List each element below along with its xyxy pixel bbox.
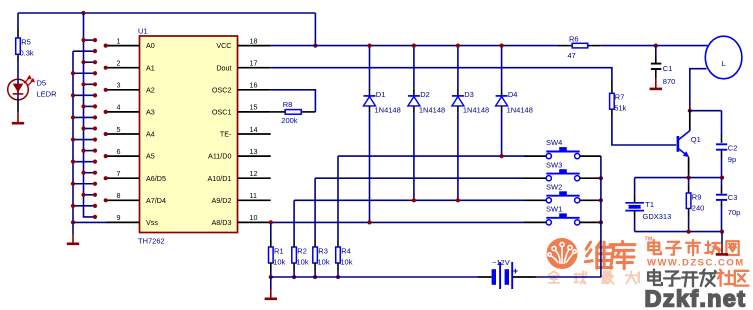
wire R4 bottom lead [337, 263, 339, 271]
svg-text:18: 18 [250, 36, 258, 45]
svg-text:LEDR: LEDR [37, 90, 58, 99]
wire C1 to ground [655, 69, 657, 78]
resistor R8 left lead to OSC1 [271, 111, 286, 113]
battery -12V left lead [478, 276, 492, 278]
switch SW3 [546, 169, 580, 181]
ground under LED [17, 113, 19, 124]
LED D5 LEDR [8, 75, 35, 100]
wire R5 to LED [17, 54, 19, 61]
switch SW2 [546, 191, 580, 203]
node VCC drop junction [313, 44, 317, 48]
resistor R9 240 [688, 178, 690, 186]
diode D4 1N4148 [496, 46, 508, 157]
svg-text:47: 47 [568, 51, 576, 60]
wire jumper row 14 [73, 183, 95, 185]
wire R2 bottom lead [293, 263, 295, 271]
svg-text:U1: U1 [138, 27, 148, 36]
battery -12V [492, 262, 513, 289]
resistor R7 51k top lead [611, 81, 613, 94]
wire SW1 row [271, 221, 524, 223]
pin 1 A0 [107, 45, 140, 47]
pin 12 A10/D1 [238, 177, 271, 179]
wire jumper row 17 [93, 215, 97, 219]
pin 16 OSC2 [238, 89, 271, 91]
node SW2 row D2 junction [412, 198, 416, 202]
resistor R3 10k [313, 247, 318, 263]
capacitor C1 870 [655, 46, 657, 56]
wire jumper row 8 [73, 116, 95, 118]
capacitor C2 9p [721, 111, 723, 135]
svg-text:TH7262: TH7262 [138, 237, 165, 246]
resistor R8 200k [285, 110, 301, 115]
svg-text:13: 13 [250, 147, 258, 156]
pin 18 VCC [238, 45, 271, 47]
svg-text:1: 1 [117, 36, 121, 45]
wire C3 bottom lead [721, 201, 723, 208]
svg-text:SW1: SW1 [546, 205, 562, 214]
wire R2 column [293, 200, 295, 240]
wire jumper row 7 [84, 105, 96, 107]
node R3 rail junction [313, 275, 317, 279]
svg-text:200k: 200k [281, 116, 298, 125]
wire SW4 row [338, 155, 524, 157]
wire Vss to bus B [73, 221, 107, 223]
wire jumper row 4 [73, 72, 95, 74]
wire collector node to C2 [690, 110, 722, 112]
svg-text:R3: R3 [318, 247, 328, 256]
wire jumper row 15 [84, 194, 96, 196]
wire jumper row 1 [84, 39, 96, 41]
svg-text:10k: 10k [297, 258, 309, 267]
svg-text:240: 240 [692, 204, 705, 213]
wire jumper row 9 [84, 128, 96, 130]
wire LED to ground [17, 100, 19, 113]
switch SW1 [546, 213, 580, 225]
svg-text:D1: D1 [376, 90, 386, 99]
svg-text:A5: A5 [146, 152, 155, 161]
wire address bus A vertical [84, 13, 96, 217]
node R1 rail junction [269, 275, 273, 279]
ground under C1 [655, 78, 657, 89]
resistor R2 10k [292, 247, 297, 263]
crystal T1 GDX313 [625, 203, 644, 211]
wire top rail drop to VCC [314, 13, 316, 46]
svg-text:R2: R2 [297, 247, 307, 256]
wire R4 column [337, 156, 339, 240]
resistor R8 200k right lead [301, 111, 315, 113]
pin 6 A5 [107, 155, 140, 157]
svg-text:D3: D3 [464, 90, 474, 99]
resistor R1 10k [269, 247, 274, 263]
ground under rail [270, 289, 272, 299]
node C1 VCC junction [654, 44, 658, 48]
watermark logo circle [547, 238, 578, 269]
wire address bus B vertical [72, 51, 74, 234]
pin 9 Vss [107, 221, 140, 223]
svg-text:OSC2: OSC2 [212, 85, 232, 94]
svg-text:SW3: SW3 [546, 160, 562, 169]
svg-text:A3: A3 [146, 108, 155, 117]
node SW2 row D3 junction [456, 198, 460, 202]
node SW1 pin10 junction [269, 220, 273, 224]
svg-text:16: 16 [250, 81, 258, 90]
svg-text:SW2: SW2 [546, 182, 562, 191]
wire SW1 to common [580, 221, 601, 223]
node bus B / Vss junction [71, 220, 75, 224]
transistor Q1 [678, 111, 690, 178]
pin 15 OSC1 [238, 111, 271, 113]
wire T1 bottom lead [634, 211, 636, 217]
capacitor C3 70p [721, 178, 723, 186]
node SW1 row D1 junction [367, 220, 371, 224]
wire R1 column [270, 222, 272, 240]
svg-text:8: 8 [117, 191, 121, 200]
svg-text:9: 9 [117, 213, 121, 222]
svg-text:1N4148: 1N4148 [375, 105, 401, 114]
switch SW4 [546, 147, 580, 159]
resistor R4 10k [336, 247, 341, 263]
svg-text:D2: D2 [420, 90, 430, 99]
wire OSC2 loop [271, 90, 316, 112]
watermark dianzi shichang wang characters [648, 240, 661, 254]
wire SW2 to common [580, 199, 601, 201]
svg-text:10: 10 [250, 213, 258, 222]
svg-text:70p: 70p [728, 208, 741, 217]
svg-text:R7: R7 [615, 92, 625, 101]
svg-text:D5: D5 [37, 79, 47, 88]
svg-text:R5: R5 [21, 38, 31, 47]
wire rail to ground [270, 277, 272, 289]
svg-text:870: 870 [663, 77, 676, 86]
svg-text:~12V: ~12V [492, 258, 510, 267]
svg-text:7: 7 [117, 169, 121, 178]
resistor R6 47 [572, 43, 588, 48]
wire to right ground [721, 232, 723, 244]
svg-text:1N4148: 1N4148 [463, 105, 489, 114]
svg-text:A11/D0: A11/D0 [208, 152, 231, 161]
node D1 VCC junction [367, 44, 371, 48]
wire jumper row 13 [84, 172, 96, 174]
svg-text:11: 11 [250, 191, 257, 200]
resistor R7 51k [610, 93, 615, 109]
svg-text:C3: C3 [728, 193, 738, 202]
node right ground junction [720, 230, 724, 234]
wire jumper row 10 [73, 139, 95, 141]
wire R7 to Q1 base [611, 109, 613, 117]
node R9 bottom junction [687, 230, 691, 234]
svg-text:15: 15 [250, 103, 258, 112]
svg-text:17: 17 [250, 59, 258, 68]
svg-text:WWW.DZSC.COM: WWW.DZSC.COM [647, 258, 745, 269]
ground under bus B [72, 234, 74, 244]
pin 17 Dout [238, 67, 271, 69]
wire VCC row to speaker [600, 45, 707, 47]
svg-text:A8/D3: A8/D3 [212, 218, 232, 227]
watermark quan qiu zui da IC row [548, 271, 559, 283]
svg-text:0.3k: 0.3k [20, 48, 34, 57]
node SW4 row D4 junction [500, 154, 504, 158]
pin 2 A1 [107, 67, 140, 69]
resistor R5 0.3k [16, 38, 21, 54]
svg-text:OSC1: OSC1 [212, 108, 232, 117]
node emitter R9 junction [687, 176, 691, 180]
wire jumper row 11 [84, 150, 96, 152]
svg-text:R4: R4 [341, 247, 351, 256]
wire jumper row 12 [73, 161, 95, 163]
svg-text:R1: R1 [274, 247, 284, 256]
svg-text:GDX313: GDX313 [643, 212, 672, 221]
svg-text:Dzkf.net: Dzkf.net [645, 286, 747, 310]
svg-text:Q1: Q1 [691, 135, 701, 144]
svg-text:3: 3 [117, 81, 121, 90]
node R2 rail junction [292, 275, 296, 279]
wire R3 bottom lead [314, 263, 316, 271]
svg-text:1N4148: 1N4148 [419, 105, 445, 114]
wire Dout row [271, 68, 612, 81]
svg-text:A9/D2: A9/D2 [212, 196, 232, 205]
svg-text:+: + [513, 266, 518, 276]
node R4 rail junction [336, 275, 340, 279]
wire C2 to node [721, 151, 723, 159]
svg-text:9p: 9p [728, 155, 736, 164]
speaker L [705, 36, 742, 79]
ground right block [721, 244, 723, 255]
wire jumper row 16 [73, 205, 95, 207]
svg-text:A2: A2 [146, 85, 155, 94]
watermark shequ orange characters [717, 270, 733, 286]
svg-text:D4: D4 [508, 90, 518, 99]
svg-text:Dout: Dout [216, 63, 231, 72]
pin 7 A6/D5 [107, 177, 140, 179]
wire jumper row 3 [84, 61, 96, 63]
svg-text:2: 2 [117, 59, 121, 68]
pin 10 A8/D3 [238, 221, 271, 223]
svg-text:1N4148: 1N4148 [507, 105, 533, 114]
svg-text:C2: C2 [728, 144, 738, 153]
node D4 VCC junction [500, 44, 504, 48]
node SW3 common junction [599, 176, 603, 180]
wire bottom rail left [271, 276, 478, 278]
wire R5 top lead [17, 13, 19, 27]
diode D1 1N4148 [364, 46, 376, 223]
pin 3 A2 [107, 89, 140, 91]
svg-text:Vss: Vss [146, 218, 158, 227]
svg-text:TE-: TE- [220, 130, 232, 139]
svg-text:A4: A4 [146, 130, 155, 139]
svg-text:A7/D4: A7/D4 [146, 196, 166, 205]
wire jumper row 2 [73, 50, 95, 52]
wire right bottom row [635, 231, 722, 233]
pin 14 TE- [238, 133, 271, 135]
node SW1 common junction [599, 220, 603, 224]
svg-text:51k: 51k [614, 104, 626, 113]
node Q1 collector junction [688, 109, 692, 113]
battery right lead [513, 276, 536, 278]
wire emitter node row [635, 177, 722, 179]
svg-text:4: 4 [117, 103, 121, 112]
watermark WEIKU big characters [585, 242, 612, 269]
diode D2 1N4148 [408, 46, 420, 201]
svg-text:10k: 10k [318, 258, 330, 267]
svg-text:10k: 10k [340, 258, 352, 267]
svg-text:VCC: VCC [216, 41, 231, 50]
svg-text:6: 6 [117, 147, 121, 156]
svg-text:L: L [722, 59, 726, 68]
op-amp U1 TH7262 IC body [140, 36, 238, 233]
svg-text:T1: T1 [645, 200, 654, 209]
svg-text:R6: R6 [569, 35, 579, 44]
svg-text:12: 12 [250, 169, 258, 178]
diode D3 1N4148 [452, 46, 464, 201]
node D3 VCC junction [456, 44, 460, 48]
pin 11 A9/D2 [238, 199, 271, 201]
wire battery to switch common [536, 276, 601, 278]
wire SW4 to common [580, 155, 601, 157]
pin 13 A11/D0 [238, 155, 271, 157]
node SW2 common junction [599, 198, 603, 202]
node top rail / bus A junction [81, 11, 85, 15]
svg-text:A0: A0 [146, 41, 155, 50]
wire jumper row 6 [73, 94, 95, 96]
node D2 VCC junction [412, 44, 416, 48]
wire SW2 row [294, 199, 524, 201]
wire R1 bottom lead [270, 263, 272, 271]
svg-text:10k: 10k [273, 258, 285, 267]
wire speaker bottom lead [690, 69, 707, 111]
pin 5 A4 [107, 133, 140, 135]
node C2 C3 junction [720, 176, 724, 180]
wire SW3 row [315, 177, 524, 179]
pin 4 A3 [107, 111, 140, 113]
svg-text:R9: R9 [692, 193, 702, 202]
svg-text:A10/D1: A10/D1 [208, 174, 232, 183]
svg-text:A1: A1 [146, 63, 155, 72]
wire VCC row [271, 45, 557, 47]
wire T1 top lead [634, 178, 636, 197]
wire top rail [18, 12, 315, 14]
watermark dianzi kaifa gray characters [648, 270, 662, 286]
wire R9 bottom lead [688, 209, 690, 217]
wire switch common vertical [600, 156, 602, 277]
svg-text:A6/D5: A6/D5 [146, 174, 166, 183]
svg-text:5: 5 [117, 125, 121, 134]
pin 8 A7/D4 [107, 199, 140, 201]
svg-text:R8: R8 [283, 100, 293, 109]
wire R3 column [314, 178, 316, 240]
wire SW3 to common [580, 177, 601, 179]
svg-text:C1: C1 [663, 64, 673, 73]
svg-text:SW4: SW4 [546, 138, 562, 147]
svg-text:14: 14 [250, 125, 258, 134]
resistor R6 47 leads [557, 45, 573, 47]
wire jumper row 5 [84, 83, 96, 85]
